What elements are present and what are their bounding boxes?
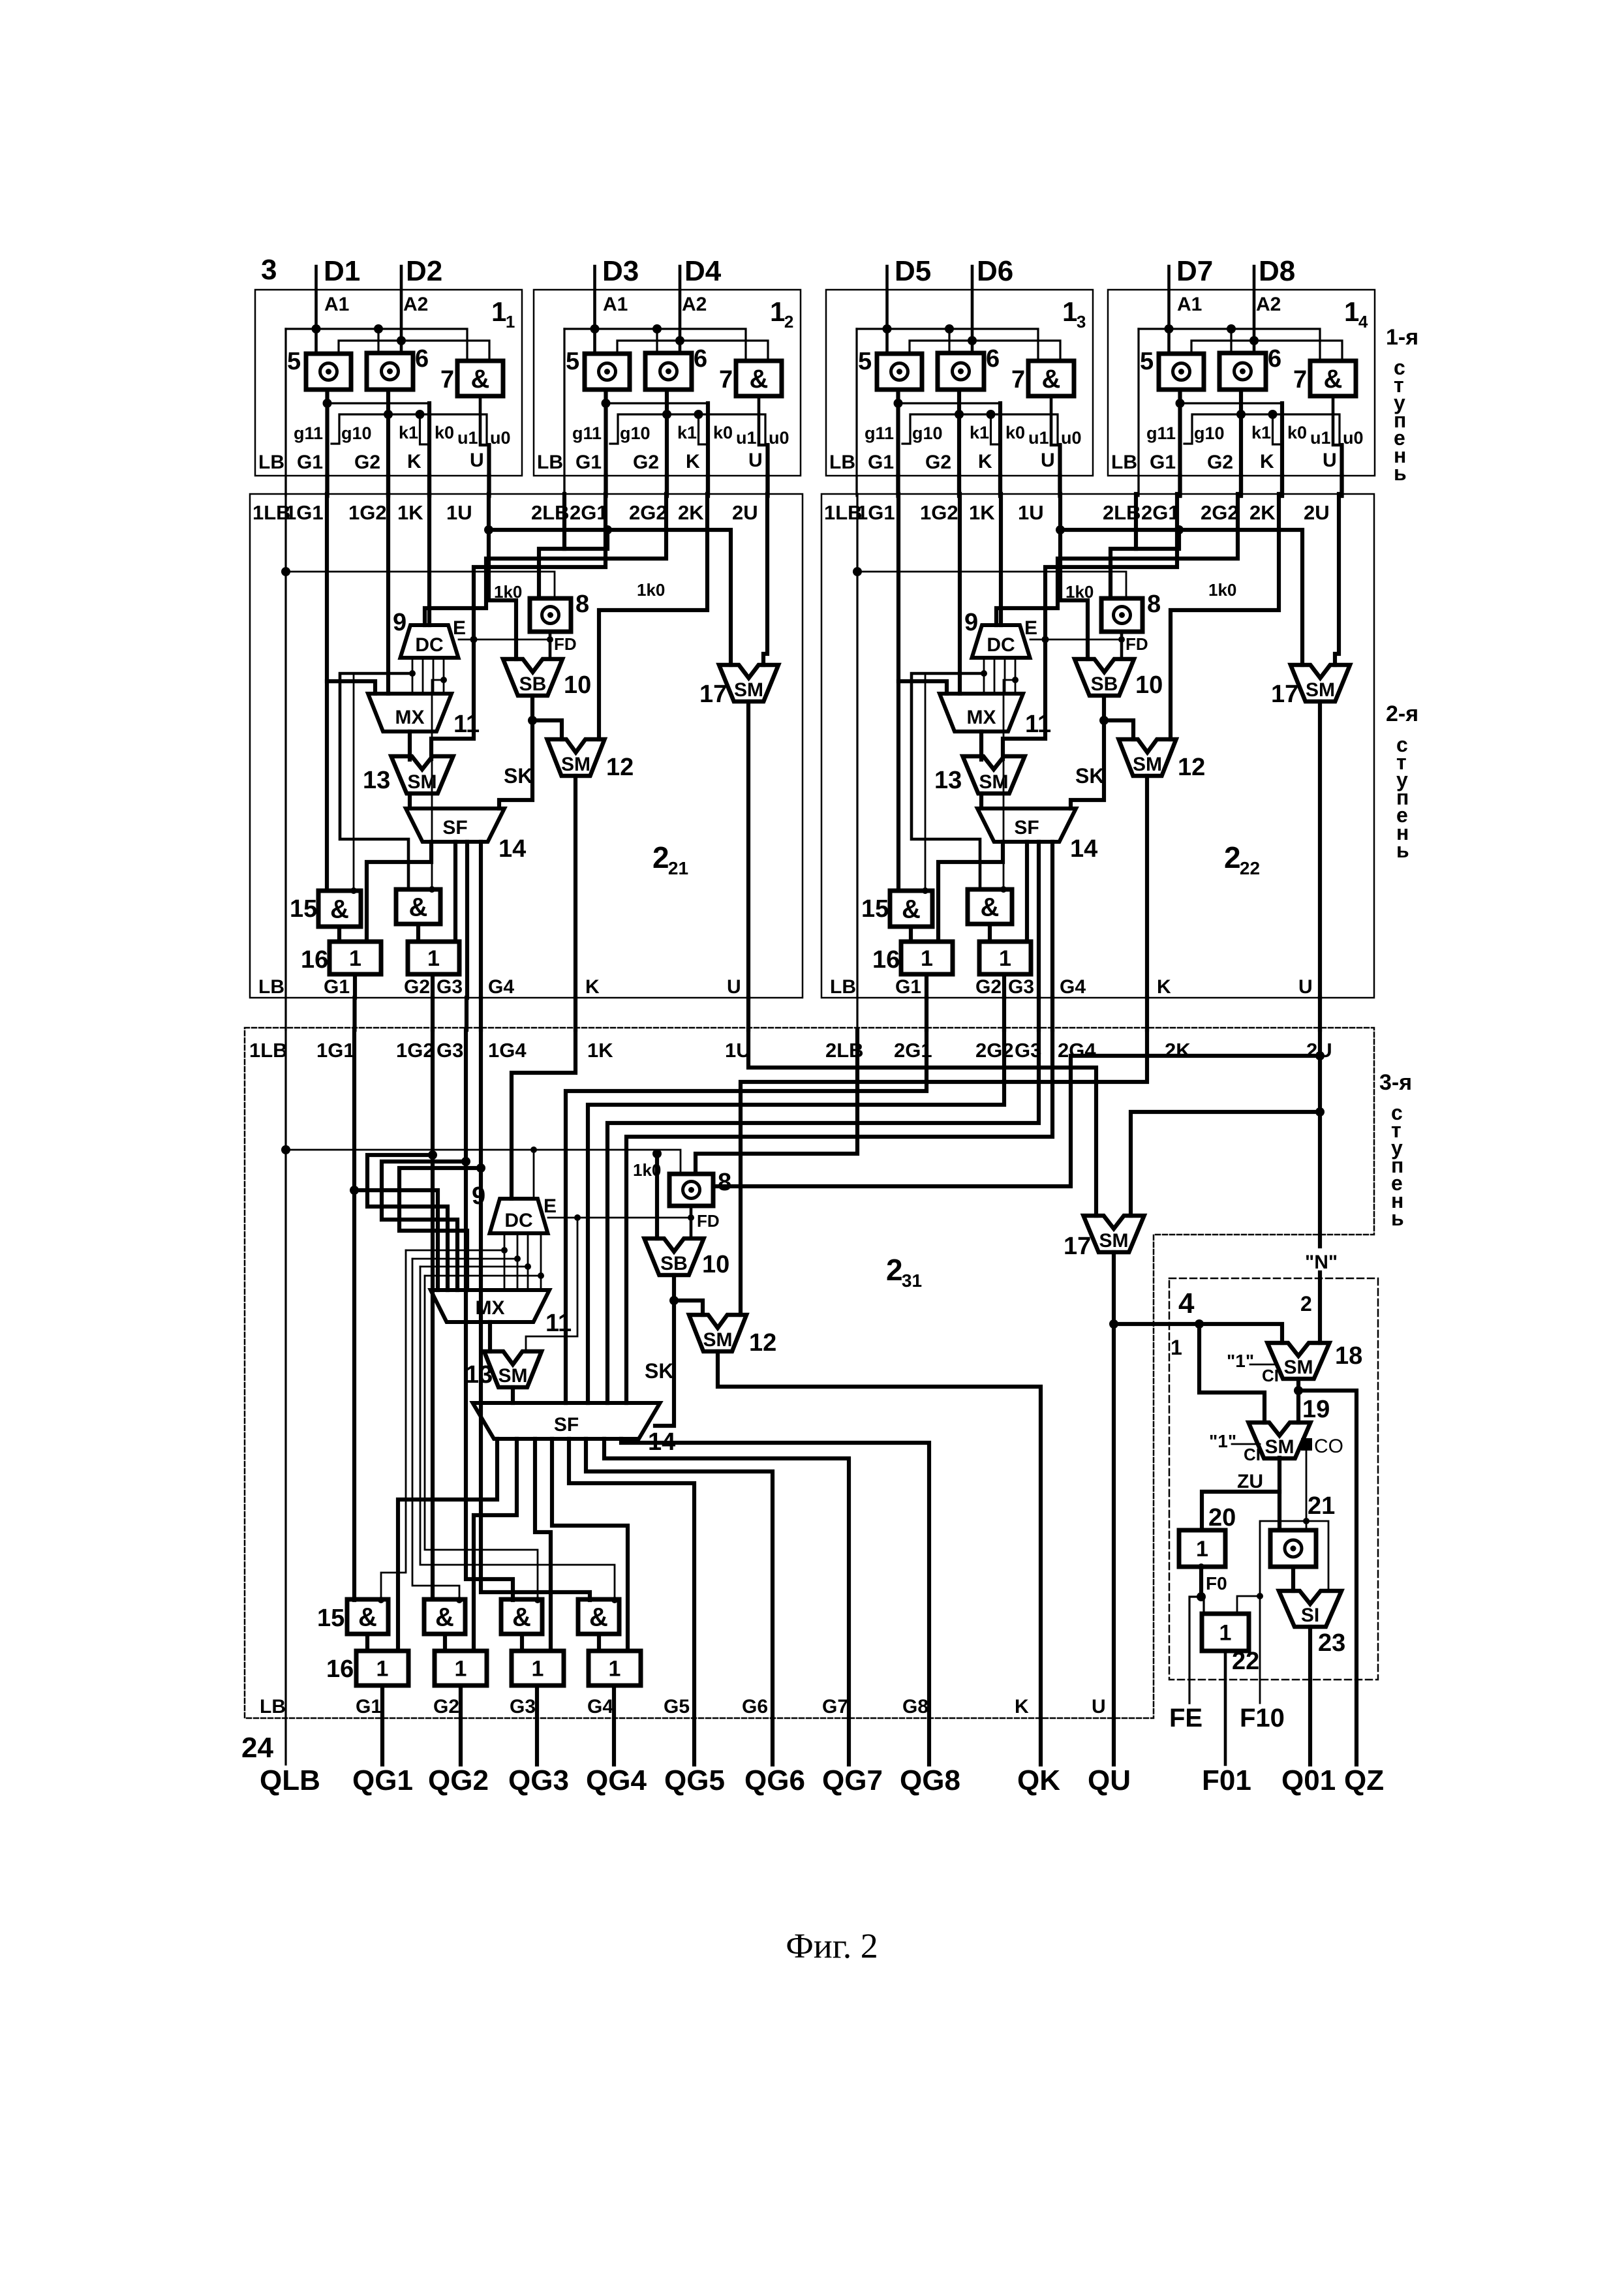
svg-text:K: K: [1157, 976, 1171, 998]
SF output 1 to OR 16 left 2 22: [938, 842, 1003, 942]
block 4 border: [1169, 1278, 1378, 1680]
svg-text:&: &: [1324, 365, 1343, 393]
wire H0b of block 1_3: [910, 341, 1060, 361]
G1 output column block 1_1: [325, 403, 329, 495]
svg-text:LB: LB: [258, 976, 284, 998]
SF output 2 to OR 16 right 2 21: [453, 842, 457, 942]
G1 output column block 1_2: [604, 403, 607, 495]
svg-text:G2: G2: [925, 452, 951, 473]
wire to element 6 block 1_1: [377, 329, 379, 353]
junction on D1 wire block 1_4: [1165, 324, 1174, 333]
output wire of AND 7 block 1_3: [1051, 396, 1060, 445]
shifter SF 14 stage 3: [473, 1403, 660, 1439]
svg-text:G4: G4: [1060, 976, 1086, 998]
junction feeding element 6 block 1_3: [945, 324, 954, 333]
svg-text:22: 22: [1240, 858, 1260, 878]
CO branch to SI: [1306, 1521, 1328, 1591]
OR element 16 left of 2 21: [329, 942, 381, 974]
svg-text:3: 3: [1077, 312, 1086, 331]
junction E crossing 2 21: [470, 636, 478, 643]
2G1 column to SM 13 2 21: [431, 494, 605, 759]
SM 17 output U column stage 3: [1112, 1252, 1116, 1764]
junction DC-MX a 2 22: [981, 670, 987, 677]
summator SM 19: [1249, 1423, 1311, 1458]
AND element 15-3 stage 3: [501, 1599, 542, 1634]
2K column to SM 12 2 22: [1171, 494, 1279, 739]
svg-text:G1: G1: [324, 976, 350, 998]
svg-text:SM: SM: [408, 771, 437, 793]
junction g11 block 1_3: [894, 399, 903, 408]
AND gate 7 of block 1_1: [457, 361, 503, 396]
svg-text:1G2: 1G2: [920, 501, 958, 524]
svg-text:2: 2: [886, 1253, 903, 1287]
svg-text:G4: G4: [587, 1696, 613, 1717]
output wire of AND 7 block 1_4: [1333, 396, 1342, 445]
svg-text:&: &: [589, 1603, 608, 1632]
SF output 1 to OR 16 left 2 21: [367, 842, 431, 942]
wire H0b of block 1_1: [339, 341, 489, 361]
svg-text:G1: G1: [575, 452, 602, 473]
junction on G2 wire block 1_2: [662, 410, 671, 419]
SF output 1 weave stage 3: [398, 1439, 497, 1651]
wire to AND 15 left 2 22: [912, 673, 984, 889]
svg-text:K: K: [1260, 451, 1274, 472]
subtractor SB 10 of 2 22: [1075, 659, 1134, 696]
gap wires between stage 2 and stage 3: [284, 998, 286, 1030]
svg-text:ZU: ZU: [1237, 1471, 1263, 1492]
svg-text:1K: 1K: [969, 501, 995, 524]
wire to AND 15 right second 2 22: [1004, 680, 1015, 889]
junction feeding element 6 block 1_4: [1227, 324, 1236, 333]
svg-text:2: 2: [652, 840, 669, 874]
svg-text:2-я: 2-я: [1386, 701, 1418, 726]
equivalence element 6 of block 1_4: [1219, 353, 1266, 390]
1U column to SM 17 stage 3: [748, 1030, 1096, 1216]
N wire to SM 18: [1318, 1272, 1322, 1343]
input D line A2 of block 1_1: [400, 266, 403, 354]
wire g11-k0 block 1_1: [328, 402, 430, 404]
wire FE output: [1189, 1597, 1201, 1703]
svg-text:10: 10: [1135, 671, 1163, 699]
svg-text:"1": "1": [1227, 1351, 1254, 1371]
wire g11-k0 block 1_2: [606, 402, 709, 404]
junction FD 2 21: [547, 636, 553, 643]
carry-in wire SM 19: [1232, 1443, 1260, 1445]
svg-text:8: 8: [575, 591, 589, 618]
svg-text:u0: u0: [769, 428, 789, 448]
junction k1 block 1_2: [694, 410, 703, 419]
branch 1G1 to MX stage 3: [354, 1190, 438, 1290]
svg-text:MX: MX: [476, 1297, 505, 1319]
svg-text:11: 11: [1025, 711, 1051, 738]
OR element 16-1 stage 3: [356, 1651, 408, 1685]
svg-text:u0: u0: [1061, 428, 1082, 448]
OR 16 right output G2 column 2 21: [431, 974, 435, 998]
svg-text:1k0: 1k0: [637, 580, 665, 600]
svg-text:1k0: 1k0: [633, 1160, 661, 1180]
svg-text:LB: LB: [830, 976, 856, 998]
svg-text:k0: k0: [1005, 423, 1025, 442]
svg-text:14: 14: [1070, 835, 1097, 863]
MX output stage 3: [488, 1322, 492, 1351]
svg-text:DC: DC: [987, 634, 1015, 656]
SF output G4 2 22: [1050, 842, 1054, 998]
AND gate 7 of block 1_3: [1028, 361, 1074, 396]
svg-text:QK: QK: [1017, 1764, 1060, 1796]
svg-text:G1: G1: [868, 452, 894, 473]
equivalence element 5 of block 1_3: [877, 354, 922, 390]
svg-text:1-я: 1-я: [1386, 325, 1418, 350]
svg-text:G1: G1: [895, 976, 921, 998]
wire H0b of block 1_2: [617, 341, 768, 361]
AND outputs stage 3: [365, 1634, 369, 1651]
svg-text:2G4: 2G4: [1058, 1039, 1096, 1062]
CO wire down: [1306, 1451, 1308, 1530]
SF output to G8: [621, 1439, 929, 1764]
svg-text:G3: G3: [510, 1696, 536, 1717]
DC outputs to MX stage 3: [504, 1233, 506, 1290]
AND gate 7 of block 1_4: [1310, 361, 1356, 396]
SM 19 output: [1278, 1458, 1281, 1530]
svg-text:MX: MX: [967, 707, 996, 728]
shifter SF 14 of 2 22: [977, 808, 1076, 842]
summator SM 17 of 2 21: [719, 665, 778, 701]
svg-text:k1: k1: [399, 423, 418, 442]
svg-text:17: 17: [1271, 681, 1298, 708]
wire E to FD 2 21: [459, 639, 550, 641]
summator SM 12 of 2 22: [1119, 739, 1176, 776]
wire k1 loop block 1_3: [991, 414, 1001, 444]
svg-text:8: 8: [718, 1169, 731, 1196]
output wire of AND 7 block 1_1: [480, 396, 489, 445]
summator SM 12 of 2 21: [547, 739, 605, 776]
svg-text:k1: k1: [1251, 423, 1271, 442]
input D line A2 of block 1_2: [679, 266, 682, 354]
2G1 column to SM 13 2 22: [1003, 494, 1177, 759]
svg-text:LB: LB: [260, 1696, 286, 1717]
svg-text:SM: SM: [979, 771, 1009, 793]
SB output junction 2 22: [1102, 696, 1106, 720]
junction feeding element 6 block 1_2: [652, 324, 662, 333]
branch to QZ: [1294, 1386, 1303, 1395]
wire g10 loop block 1_3: [902, 414, 1058, 445]
wire H0 of block 1_4: [1139, 329, 1320, 361]
svg-text:9: 9: [472, 1182, 485, 1210]
SF output 2 to OR 16 right 2 22: [1025, 842, 1029, 942]
svg-text:2G2: 2G2: [975, 1039, 1014, 1062]
tap from U column to block 4: [1109, 1319, 1118, 1329]
svg-text:LB: LB: [1111, 452, 1137, 473]
junction FD 2 22: [1118, 636, 1125, 643]
svg-text:2K: 2K: [1165, 1039, 1191, 1062]
SF output to G7: [604, 1439, 849, 1764]
junction g11 block 1_1: [323, 399, 332, 408]
wire SK stage 3: [655, 1300, 674, 1426]
svg-text:2: 2: [1300, 1292, 1312, 1316]
svg-text:K: K: [407, 451, 421, 472]
svg-text:D6: D6: [977, 255, 1013, 287]
AND 15 right output 2 21: [416, 924, 420, 942]
svg-text:15: 15: [317, 1605, 345, 1632]
SI output Q01: [1308, 1627, 1312, 1764]
svg-text:FD: FD: [1126, 634, 1148, 654]
wire to OR 22 right input: [1237, 1596, 1260, 1614]
svg-text:22: 22: [1232, 1648, 1259, 1675]
svg-text:&: &: [409, 893, 428, 922]
DC outputs to MX 2 22: [983, 658, 985, 694]
svg-text:9: 9: [393, 609, 406, 636]
1G1 column into AND 15 2 22: [896, 494, 900, 891]
junction on G2 wire block 1_1: [384, 410, 393, 419]
OR element 16-4 stage 3: [589, 1651, 641, 1685]
summator SM 17 stage 3: [1084, 1216, 1144, 1252]
wire g10 loop block 1_1: [331, 414, 487, 445]
K output column block 1_3: [998, 403, 1002, 495]
svg-text:2: 2: [1224, 840, 1241, 874]
svg-text:1: 1: [491, 296, 506, 327]
wire g10 loop block 1_4: [1184, 414, 1340, 445]
output wire of element 5 block 1_1: [325, 390, 329, 403]
input D line A1 of block 1_4: [1167, 266, 1171, 354]
OR element 22: [1202, 1614, 1249, 1651]
stage-1 block 1_2 border: [534, 290, 801, 476]
svg-text:2U: 2U: [732, 501, 758, 524]
branch 2U to SM 17 stage 3: [1131, 1112, 1320, 1216]
svg-text:1G2: 1G2: [348, 501, 387, 524]
junction AND 15 right input 2 22: [1000, 886, 1007, 893]
svg-text:7: 7: [1293, 366, 1307, 393]
svg-text:CI: CI: [1244, 1445, 1261, 1464]
OR 16 left output G1 column 2 21: [353, 974, 357, 998]
svg-text:1: 1: [376, 1657, 389, 1682]
svg-text:1G2: 1G2: [396, 1039, 435, 1062]
AND 15 right output 2 22: [988, 924, 992, 942]
svg-text:Фиг. 2: Фиг. 2: [786, 1926, 878, 1965]
svg-text:17: 17: [699, 681, 727, 708]
SF output G3 2 21: [465, 842, 469, 998]
2U column to N node stage 3: [1318, 1030, 1322, 1246]
junction on D2 wire block 1_1: [397, 336, 406, 345]
svg-text:5: 5: [1140, 348, 1154, 375]
svg-text:G7: G7: [822, 1696, 848, 1717]
stage-1 block 1_4 border: [1108, 290, 1375, 476]
2G1 column to SF stage 3: [566, 1030, 927, 1403]
svg-text:4: 4: [1358, 312, 1368, 331]
svg-text:G5: G5: [664, 1696, 690, 1717]
svg-text:Q01: Q01: [1281, 1764, 1336, 1796]
SM 12 output K column 2 22: [1145, 776, 1149, 998]
2LB column to element 8 stage 3: [696, 1030, 857, 1174]
1U column to SB 2 21: [489, 494, 516, 659]
thin DC bus b stage 3: [412, 1258, 517, 1260]
wire via node to block 4 stage 3: [713, 1056, 1320, 1186]
svg-text:G2: G2: [433, 1696, 459, 1717]
junction on D2 wire block 1_3: [968, 336, 977, 345]
junction DC-MX b 2 22: [1012, 677, 1019, 683]
junction FD stage 3: [688, 1214, 694, 1221]
AND gate 7 of block 1_2: [736, 361, 782, 396]
junction DC-MX b 2 21: [440, 677, 447, 683]
svg-text:1: 1: [770, 296, 785, 327]
U output column block 1_1: [487, 445, 491, 495]
svg-text:SM: SM: [1133, 754, 1162, 775]
junction DC-MX a 2 21: [409, 670, 416, 677]
svg-text:F10: F10: [1240, 1704, 1285, 1732]
svg-text:QG4: QG4: [586, 1764, 647, 1796]
multiplexer MX 11 of 2 21: [368, 694, 452, 731]
2U column to SM 17 2 21: [763, 494, 767, 665]
output wire of element 5 block 1_2: [604, 390, 607, 403]
OR 16 right output G2 column 2 22: [1002, 974, 1006, 998]
wire g11-k0 block 1_3: [898, 402, 1001, 404]
svg-text:19: 19: [1302, 1396, 1330, 1423]
svg-text:12: 12: [1178, 754, 1205, 781]
svg-text:1: 1: [921, 946, 933, 971]
svg-text:&: &: [512, 1603, 531, 1632]
junction AND 15 left input 2 21: [350, 887, 357, 894]
svg-text:QZ: QZ: [1344, 1764, 1384, 1796]
svg-text:1K: 1K: [587, 1039, 613, 1062]
svg-text:1: 1: [427, 946, 440, 971]
svg-text:ь: ь: [1396, 839, 1409, 862]
svg-text:FD: FD: [697, 1211, 720, 1231]
svg-text:E: E: [453, 617, 466, 639]
svg-text:SM: SM: [1099, 1230, 1129, 1252]
svg-text:DC: DC: [504, 1210, 532, 1231]
svg-text:u1: u1: [1028, 428, 1049, 448]
svg-text:D8: D8: [1259, 255, 1295, 287]
junction AND inputs stage 3: [378, 1597, 384, 1603]
1K column into DC 2 22: [999, 494, 1003, 625]
svg-text:QG8: QG8: [900, 1764, 960, 1796]
svg-text:k1: k1: [970, 423, 989, 442]
svg-text:MX: MX: [395, 707, 425, 728]
wire SB to SM 12 2 21: [532, 720, 562, 739]
junction g11 block 1_2: [602, 399, 611, 408]
U output column block 1_2: [765, 445, 769, 495]
element 21 output to SI: [1291, 1567, 1295, 1591]
svg-text:SF: SF: [554, 1414, 579, 1436]
SB output junction stage 3: [672, 1275, 676, 1300]
branch 1G4 to MX stage 3: [399, 1168, 481, 1290]
junction on D2 wire block 1_2: [675, 336, 684, 345]
thin wire to AND 15-3 stage 3: [425, 1276, 538, 1600]
SB output junction 2 21: [530, 696, 534, 720]
junction DC b stage 3: [514, 1255, 521, 1262]
stage-2 block 2 21 border: [250, 494, 803, 998]
svg-text:U: U: [727, 976, 741, 998]
AND element 15 right of 2 21: [396, 889, 440, 924]
wire SK 2 21: [499, 720, 532, 808]
output wire of element 5 block 1_4: [1178, 390, 1182, 403]
svg-text:QG3: QG3: [508, 1764, 569, 1796]
input D line A1 of block 1_1: [314, 266, 318, 354]
svg-text:G1: G1: [1150, 452, 1176, 473]
svg-text:QG6: QG6: [744, 1764, 805, 1796]
svg-text:F01: F01: [1202, 1764, 1251, 1796]
input D line A2 of block 1_3: [971, 266, 974, 354]
1G4 column stage 3: [481, 1030, 590, 1600]
svg-text:12: 12: [749, 1329, 776, 1357]
svg-text:24: 24: [241, 1732, 273, 1764]
G2 output column block 1_2: [665, 390, 669, 495]
svg-text:CI: CI: [1262, 1366, 1279, 1385]
equivalence element 6 of block 1_3: [938, 353, 984, 390]
junction AND 15 right input 2 21: [429, 886, 435, 893]
OR element 20: [1179, 1530, 1225, 1567]
svg-text:U: U: [1298, 976, 1313, 998]
svg-text:&: &: [981, 893, 1000, 922]
svg-text:3: 3: [261, 254, 277, 286]
svg-text:14: 14: [498, 835, 526, 863]
AND element 15 right of 2 22: [968, 889, 1012, 924]
svg-text:9: 9: [964, 609, 978, 636]
1LB column inside 2 21: [284, 494, 286, 998]
branch 1G1 to MX 2 21: [327, 681, 375, 694]
svg-text:g10: g10: [620, 423, 651, 443]
thin wire to AND 15-2 stage 3: [412, 1259, 459, 1599]
junction k1 block 1_4: [1268, 410, 1278, 419]
wire to AND 15 right second 2 21: [432, 680, 444, 889]
svg-text:FD: FD: [554, 634, 577, 654]
svg-text:G3: G3: [437, 1039, 463, 1062]
output wire of element 5 block 1_3: [896, 390, 900, 403]
junction g11 block 1_4: [1176, 399, 1185, 408]
svg-text:1U: 1U: [1018, 501, 1044, 524]
wire H0b of block 1_4: [1191, 341, 1342, 361]
svg-text:K: K: [585, 976, 600, 998]
wire SB to SM 12 2 22: [1104, 720, 1133, 739]
AND 15 left output 2 21: [337, 927, 341, 942]
svg-text:20: 20: [1208, 1504, 1236, 1531]
svg-text:10: 10: [702, 1251, 729, 1278]
OR element 16 right of 2 22: [979, 942, 1031, 974]
LB column of block 1_4: [1137, 329, 1139, 495]
svg-text:E: E: [1024, 617, 1037, 639]
svg-text:D2: D2: [406, 255, 442, 287]
OR element 16-3 stage 3: [512, 1651, 564, 1685]
svg-text:SM: SM: [1306, 679, 1335, 701]
svg-text:1: 1: [349, 946, 361, 971]
svg-text:6: 6: [1268, 345, 1281, 373]
svg-text:1K: 1K: [397, 501, 423, 524]
LB column of block 1_2: [563, 329, 565, 495]
2G3 column to SF stage 3: [607, 1030, 1039, 1403]
svg-text:LB: LB: [829, 452, 855, 473]
svg-text:2G1: 2G1: [570, 501, 608, 524]
stage-3 border: [245, 1028, 1374, 1718]
decoder DC 9 stage 3: [490, 1199, 548, 1233]
wire g10 loop block 1_2: [610, 414, 765, 445]
svg-text:D3: D3: [602, 255, 639, 287]
equivalence element 5 of block 1_1: [306, 354, 351, 390]
wire k1 loop block 1_2: [699, 414, 709, 444]
LB column of block 1_1: [284, 329, 286, 495]
svg-text:1: 1: [999, 946, 1011, 971]
SF output to G5: [569, 1439, 694, 1764]
F10 output wire: [1259, 1596, 1261, 1703]
2LB column 2 22: [1134, 494, 1138, 549]
multiplexer MX 11 stage 3: [431, 1290, 549, 1322]
1LB column inside 2 22: [856, 494, 858, 998]
svg-text:&: &: [902, 895, 921, 924]
wire F0 to OR 22: [1203, 1597, 1204, 1614]
svg-text:13: 13: [363, 767, 390, 794]
carry-out square CO: [1301, 1438, 1312, 1451]
wire ZU to OR 20: [1202, 1492, 1279, 1530]
2U column to SM 17 2 22: [1335, 494, 1339, 665]
svg-text:16: 16: [301, 946, 328, 974]
